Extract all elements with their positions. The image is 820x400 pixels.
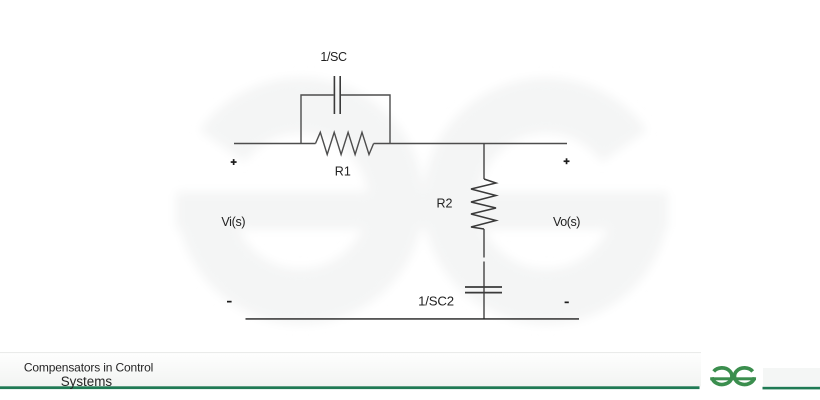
svg-text:Systems: Systems [61,374,113,389]
svg-text:1/SC2: 1/SC2 [418,294,454,309]
svg-text:Vi(s): Vi(s) [221,215,245,229]
svg-text:Vo(s): Vo(s) [553,215,580,229]
svg-text:R1: R1 [335,165,351,179]
svg-text:Compensators in Control: Compensators in Control [24,361,153,375]
svg-text:R2: R2 [437,197,453,211]
svg-text:1/SC: 1/SC [320,50,347,64]
